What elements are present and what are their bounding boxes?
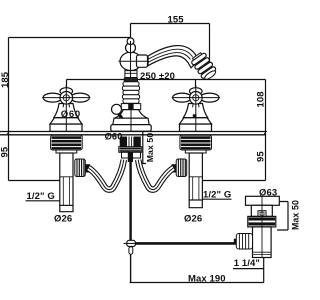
right handle skirt <box>180 118 212 124</box>
svg-text:Max 50: Max 50 <box>291 200 301 230</box>
svg-text:1/2" G: 1/2" G <box>27 191 55 202</box>
centre rod block <box>128 152 133 162</box>
spout ball small <box>127 38 134 45</box>
svg-text:Max 190: Max 190 <box>188 274 226 285</box>
dimension 95 right bottom extension <box>198 180 266 182</box>
left hose elbow nut <box>75 159 90 177</box>
left hose <box>89 160 124 190</box>
waste tube <box>253 227 272 258</box>
dimension 155 right extension down to aerator <box>209 24 211 63</box>
spout column centreline <box>130 41 132 77</box>
spout column dark ring <box>124 77 138 81</box>
left handle group <box>42 85 90 131</box>
waste locknut <box>248 216 276 227</box>
spout arm tube <box>148 46 200 68</box>
right handle hub <box>190 92 203 105</box>
countertop deck lower line <box>0 134 266 136</box>
spout arm hex nut <box>137 55 148 67</box>
pop-up vertical rod <box>129 162 131 241</box>
svg-text:155: 155 <box>168 14 185 25</box>
spout ball medium <box>126 43 136 53</box>
left handle side lobes <box>43 93 62 102</box>
left 1/2 G leader <box>26 200 60 202</box>
svg-text:Ø26: Ø26 <box>184 214 202 225</box>
right handle cross centrelines <box>172 97 220 99</box>
right handle top arm <box>190 88 203 95</box>
right handle centre drop / 250 dim line <box>195 80 197 132</box>
dimension 95 left bottom extension <box>9 180 67 182</box>
1 1/4 leader <box>233 268 264 270</box>
waste Max 50 bracket <box>277 202 288 231</box>
dimension 108/95 right vertical line <box>265 80 267 181</box>
centre hose nuts <box>122 152 130 158</box>
right shank washer <box>185 150 206 153</box>
spout group <box>111 38 219 131</box>
spout column rings <box>122 82 139 103</box>
left handle dome <box>54 104 78 118</box>
svg-text:Ø60: Ø60 <box>61 109 81 120</box>
spout base flange <box>111 125 151 132</box>
svg-text:1/2" G: 1/2" G <box>203 190 231 201</box>
svg-text:95: 95 <box>0 146 11 157</box>
right hose <box>138 160 173 190</box>
centre fitting band <box>119 147 142 153</box>
svg-text:Max 50: Max 50 <box>145 133 155 163</box>
spout body ball <box>120 52 142 70</box>
right shank tube <box>189 153 202 200</box>
right handle dome <box>183 104 207 118</box>
rod coupler <box>127 240 136 246</box>
pop-up horizontal rod <box>124 242 128 244</box>
Max 50 centre bracket <box>140 132 146 164</box>
svg-text:1 1/4": 1 1/4" <box>234 258 260 269</box>
pop-up knob <box>112 104 122 114</box>
waste body <box>251 205 272 216</box>
dimension 185 extension line top <box>9 37 131 39</box>
pop-up knob stem <box>118 113 123 120</box>
centre threaded tails <box>120 137 127 147</box>
svg-text:250 ±20: 250 ±20 <box>140 71 175 82</box>
left shank tube <box>60 153 73 205</box>
right O26 extension stubs <box>189 200 202 208</box>
right handle group <box>172 85 220 131</box>
countertop deck upper line <box>0 131 266 133</box>
dimension 155 line <box>131 23 210 25</box>
svg-text:Ø60: Ø60 <box>105 131 123 141</box>
spout hex nut band <box>121 104 140 110</box>
spout neck <box>125 68 137 78</box>
left handle skirt <box>50 118 82 124</box>
right handle index button <box>193 114 197 117</box>
left shank mounting nut <box>51 135 83 150</box>
Max 190 dimension <box>130 254 132 283</box>
waste centreline <box>261 196 263 257</box>
right handle side lobes <box>173 93 192 102</box>
left O26 extension stubs <box>60 205 73 211</box>
waste flange <box>246 196 280 205</box>
left handle hub <box>60 92 73 105</box>
dimension ticks <box>7 131 267 134</box>
spout base bell <box>115 110 148 119</box>
dimension 155 left extension down to spout ball <box>130 24 132 42</box>
aerator level reference line <box>67 79 266 81</box>
right shank mounting nut <box>180 135 212 150</box>
aerator <box>190 51 219 82</box>
left shank washer <box>56 150 77 153</box>
svg-text:108: 108 <box>256 91 267 107</box>
left handle plinth <box>50 124 82 131</box>
waste ball joint nut <box>234 239 237 245</box>
right handle plinth <box>180 124 212 131</box>
left handle centre drop <box>66 80 68 94</box>
svg-text:185: 185 <box>0 71 11 88</box>
spout base band <box>113 118 149 124</box>
left handle cross centrelines <box>42 97 90 99</box>
svg-text:Ø26: Ø26 <box>54 214 72 225</box>
right 1/2 G leader <box>202 198 232 200</box>
spout arm centreline <box>119 60 150 62</box>
dimension 185/95 left vertical line <box>8 38 10 181</box>
svg-text:95: 95 <box>256 151 267 162</box>
left handle top arm <box>60 88 73 95</box>
right hose elbow nut <box>172 159 187 177</box>
svg-text:Ø63: Ø63 <box>259 188 277 199</box>
